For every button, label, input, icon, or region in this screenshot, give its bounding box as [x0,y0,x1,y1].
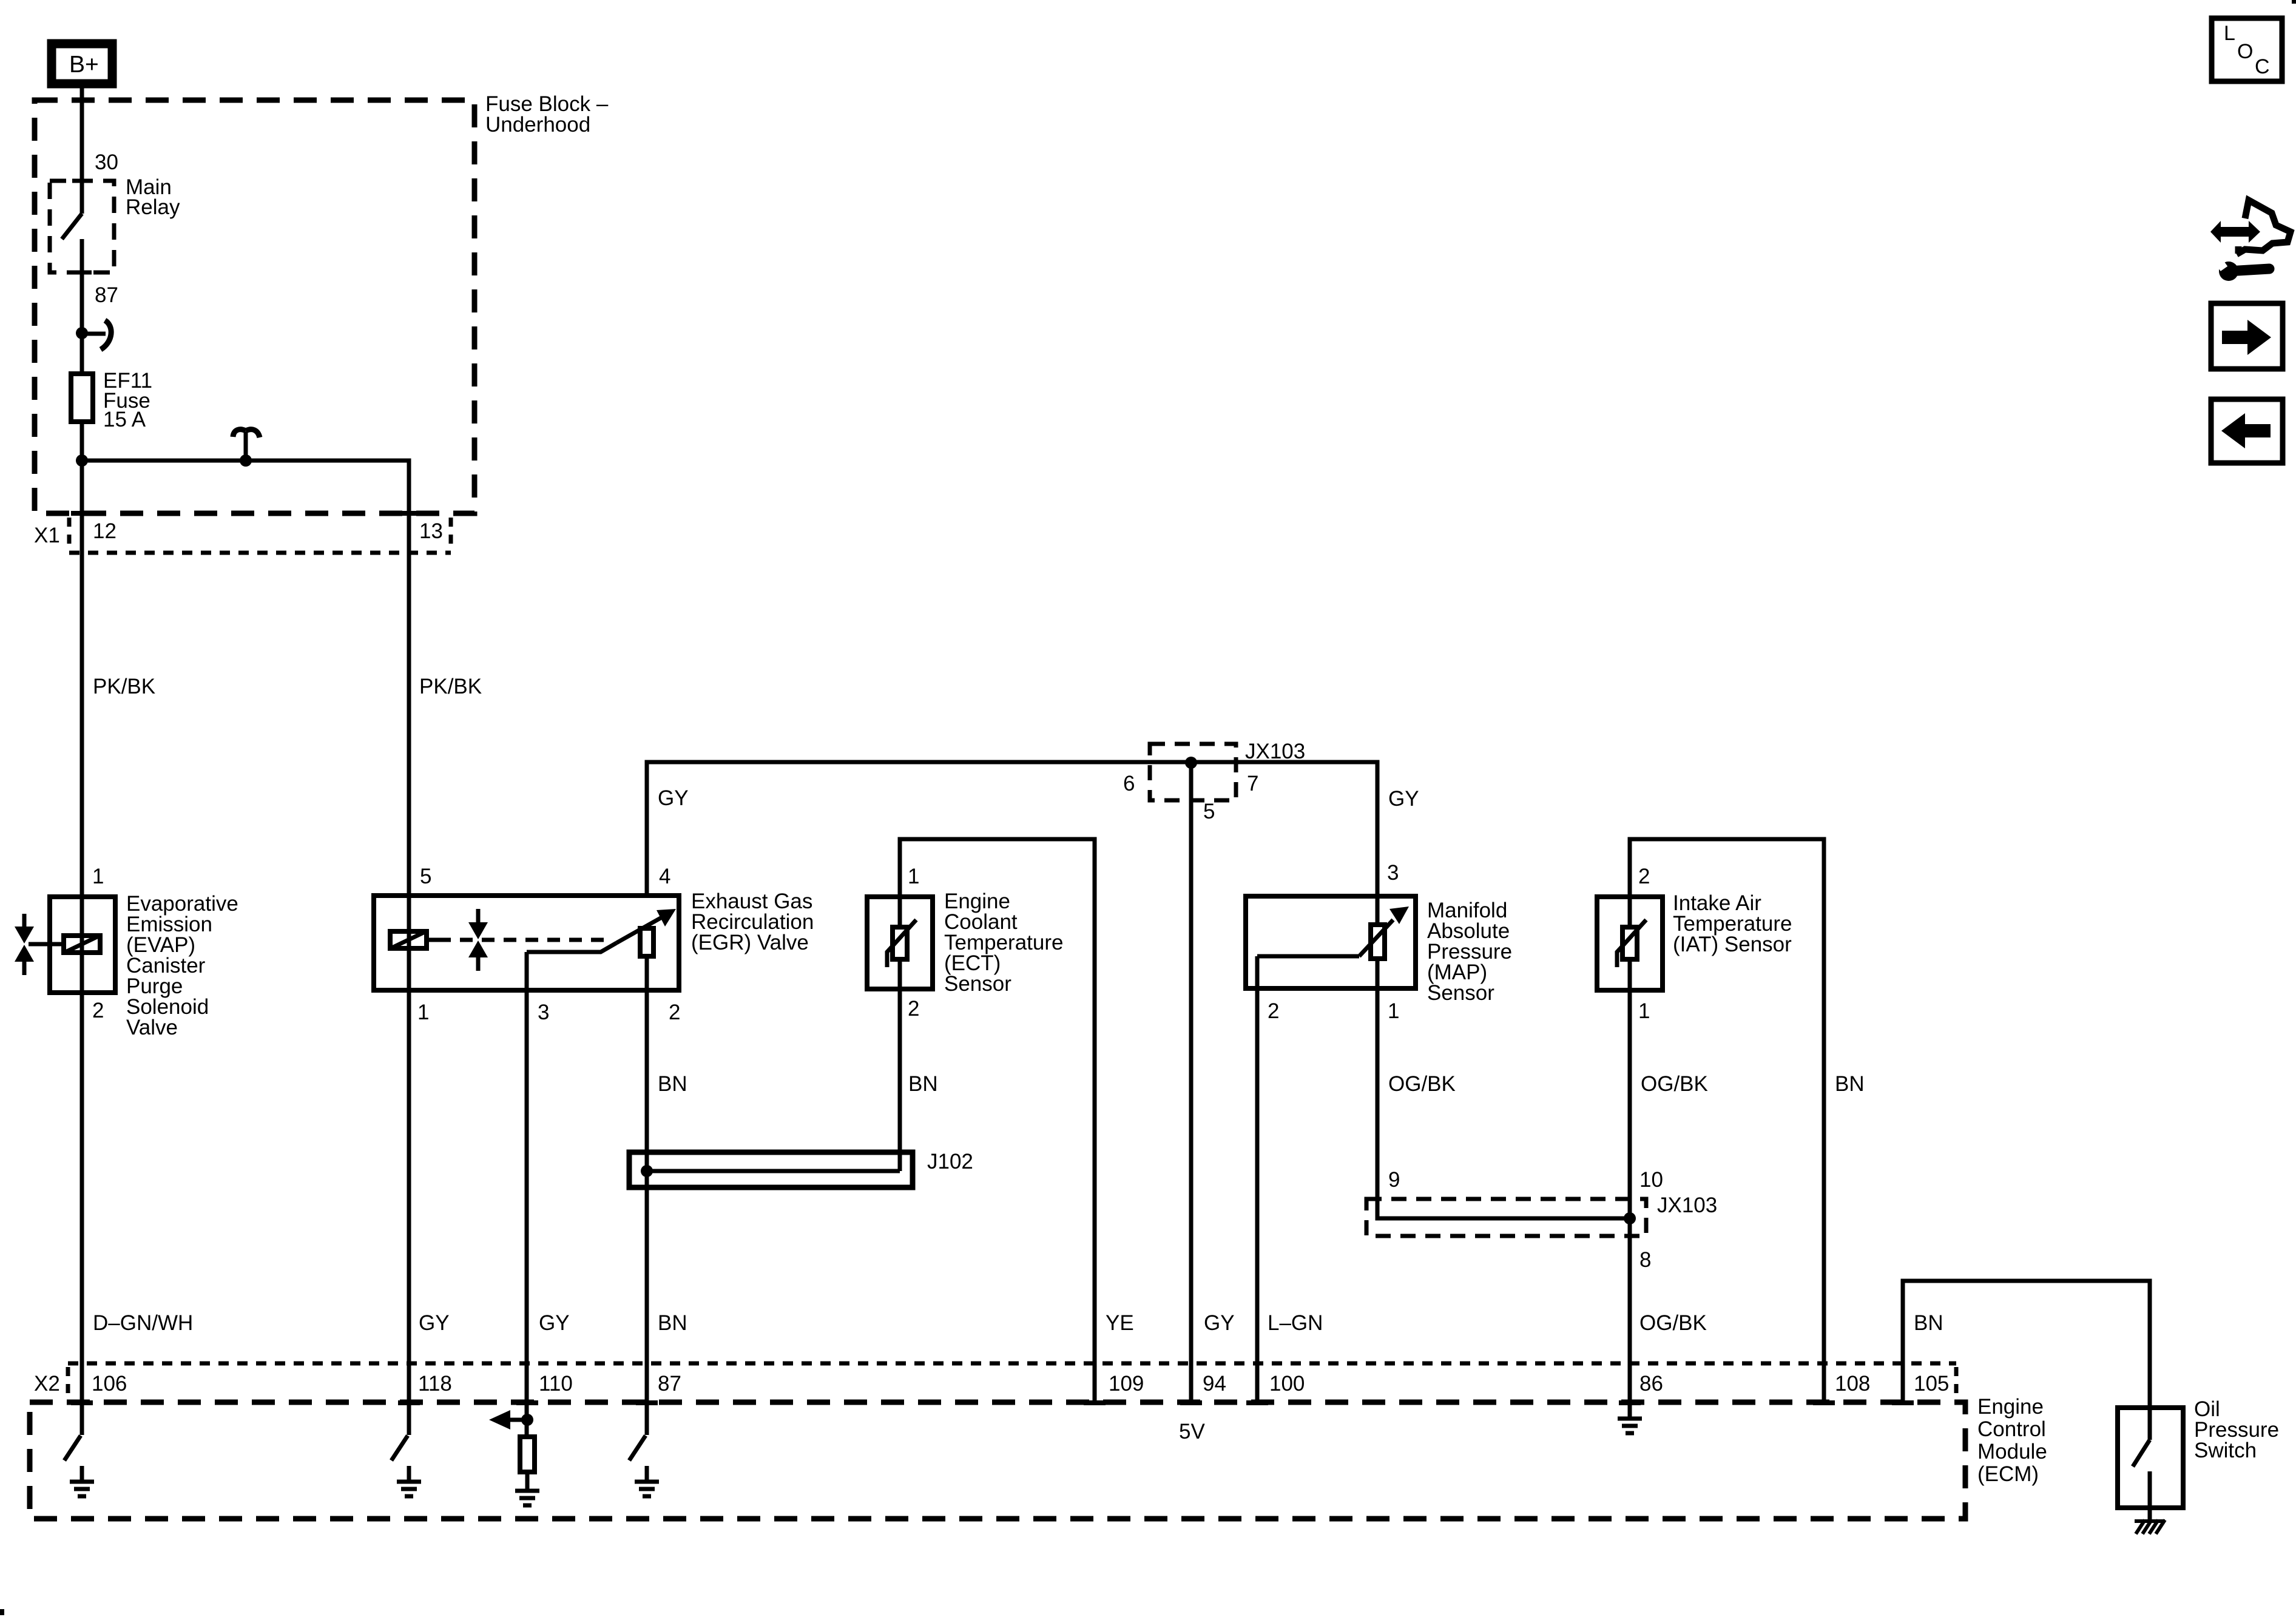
IAT thermistor body [1622,927,1637,959]
arrow to other circuit at pin 110 [510,1418,527,1422]
svg-text:5: 5 [1203,800,1215,823]
X1 connector right end cap [449,518,453,551]
Oil Pressure Switch box [2118,1408,2183,1508]
svg-text:GY: GY [658,786,689,810]
svg-text:OG/BK: OG/BK [1388,1072,1456,1096]
node: junction at pin 110 pull-up [521,1414,533,1426]
svg-text:J102: J102 [927,1150,973,1173]
pin tick X1-12 [71,511,93,516]
svg-text:Switch: Switch [2194,1439,2257,1462]
wire JX103 pin 5 to ECM pin 94 (GY 5V) [1189,763,1194,1403]
svg-text:Relay: Relay [126,195,180,219]
node: junction in J102 [641,1165,653,1177]
svg-text:86: 86 [1639,1372,1663,1396]
svg-text:12: 12 [93,519,116,543]
svg-text:110: 110 [539,1372,573,1396]
EVAP valve link line [29,942,61,947]
pin tick X2-108 [1813,1400,1835,1405]
EVAP pinch valve symbol [22,914,27,975]
svg-text:1: 1 [908,865,919,888]
page corner mark bottom left [0,1609,4,1615]
pin tick X2-109 [1084,1400,1106,1405]
EGR coil diagonal [393,933,424,947]
svg-text:9: 9 [1388,1168,1400,1192]
ground inside ECM below pin 87 [635,1466,659,1496]
tap hook curve [101,320,111,349]
B+ power symbol box [52,44,112,84]
svg-text:OG/BK: OG/BK [1641,1072,1708,1096]
svg-text:PK/BK: PK/BK [419,675,482,698]
node: junction at JX103 pin 5 [1185,757,1197,769]
ECM switch to ground at pin 106 [64,1436,81,1460]
MAP variable resistor body [1371,925,1385,959]
svg-text:X1: X1 [34,524,60,547]
svg-text:2: 2 [908,997,919,1021]
svg-text:JX103: JX103 [1657,1193,1717,1217]
svg-text:1: 1 [1388,999,1399,1023]
svg-text:15 A: 15 A [103,408,146,431]
svg-text:105: 105 [1914,1372,1949,1396]
node: tap on pin-87 wire [76,327,88,339]
ECT sensor box [867,897,933,989]
svg-text:L–GN: L–GN [1268,1311,1323,1335]
relay pin tick 87 [72,271,92,275]
wire inside EGR: pin3 branch to wiper [527,943,616,952]
svg-text:3: 3 [538,1001,549,1024]
icon: back arrow box [2211,399,2283,463]
J102 junction box [629,1152,913,1187]
wire resistor to ground [525,1474,530,1476]
svg-text:GY: GY [539,1311,570,1335]
svg-text:C: C [2255,55,2270,78]
node: tap on feeder wire [240,454,252,467]
wire IAT pin 1 through JX103 to ECM pin 86 (OG/BK) [1628,962,1632,1403]
X1 connector dotted line [69,551,451,555]
MAP sensor box [1246,896,1416,988]
EVAP solenoid valve box [50,897,115,993]
pin tick X2-86 [1619,1400,1641,1405]
wire MAP pin 1 to JX103 pin 9 (OG/BK) [1377,961,1630,1218]
svg-text:109: 109 [1109,1372,1144,1396]
svg-text:5V: 5V [1179,1420,1205,1443]
svg-text:YE: YE [1106,1311,1134,1335]
icon: wiring repair (double arrow, outline, wrench) [2210,200,2291,281]
wire MAP pin 2 to ECM pin 100 (L-GN) [1255,956,1260,1403]
svg-text:2: 2 [669,1001,680,1024]
resistor inside ECM at pin 110 [520,1437,535,1472]
svg-text:Valve: Valve [126,1016,178,1039]
svg-text:87: 87 [95,283,118,307]
svg-text:GY: GY [419,1311,450,1335]
X2 connector left end cap [66,1367,70,1400]
page corner mark top right [2292,0,2296,4]
wire ECT pin 1 loop to ECM pin 109 (YE) [900,839,1095,1403]
pin tick X2-100 [1246,1400,1268,1405]
pin tick X1-13 [398,511,420,516]
Oil Pressure Switch blade [2133,1440,2150,1467]
tap hook curve on feeder [244,431,248,459]
tap hook stub [82,332,106,336]
svg-text:1: 1 [92,865,104,888]
svg-text:Underhood: Underhood [485,113,590,137]
wire B+ to Main Relay pin 30 [80,87,84,214]
svg-text:Sensor: Sensor [944,972,1011,996]
EGR wiper arrow [616,916,664,943]
svg-text:D–GN/WH: D–GN/WH [93,1311,193,1335]
EVAP coil diagonal [67,937,97,951]
svg-text:JX103: JX103 [1245,740,1305,763]
svg-text:94: 94 [1203,1372,1226,1396]
wire ECT pin1 stub into sensor [898,894,902,925]
ground inside ECM below pin 110 [515,1475,539,1505]
X1 connector left end cap [67,518,72,551]
svg-text:108: 108 [1835,1372,1870,1396]
relay pin tick 30 [72,179,92,183]
wire ECT pin 2 to J102 (BN) [898,962,902,1171]
EGR variable resistor body [640,928,653,956]
svg-text:8: 8 [1639,1248,1651,1272]
node: junction below fuse EF11 [76,454,88,467]
svg-text:BN: BN [908,1072,938,1096]
svg-text:Engine: Engine [1977,1395,2044,1419]
svg-text:2: 2 [92,999,104,1022]
svg-text:100: 100 [1269,1372,1305,1396]
wire 5V bus: EGR pin 4 corner, horizontal run, MAP pin 3 corner (GY) [647,762,1377,922]
node: junction at JX103 pin 8 [1624,1212,1636,1224]
svg-text:10: 10 [1639,1168,1663,1192]
EGR pinch valve symbol [476,909,481,971]
pin tick X2-118 [398,1400,420,1405]
wire IAT pin2 stub into sensor [1628,894,1632,925]
svg-text:1: 1 [417,1001,429,1024]
svg-text:87: 87 [658,1372,681,1396]
wire EGR pin 5 through coil to pin 1 and ECM pin 118 (GY) [407,893,411,1435]
ECM switch to ground at pin 87 [629,1436,646,1460]
Oil Pressure Switch lower lead [2148,1471,2152,1521]
svg-text:X2: X2 [34,1372,60,1396]
svg-text:3: 3 [1387,861,1399,885]
ECM switch to ground at pin 118 [391,1436,408,1460]
ground inside ECM below pin 106 [70,1466,94,1496]
svg-text:BN: BN [658,1072,687,1096]
svg-text:Module: Module [1977,1440,2047,1463]
svg-text:Sensor: Sensor [1427,981,1494,1005]
Main Relay switch blade [62,214,82,239]
main relay dashed box [50,181,114,272]
X2 connector dotted line [68,1362,1956,1366]
ECT thermistor body [893,927,907,959]
EGR valve box [374,896,679,990]
svg-text:4: 4 [659,865,670,888]
wire inside MAP: pin2 branch to wiper [1257,954,1359,959]
IAT sensor box [1597,897,1663,990]
svg-text:OG/BK: OG/BK [1639,1311,1707,1335]
svg-text:BN: BN [658,1311,687,1335]
pin tick X2-105 [1892,1400,1914,1405]
svg-text:BN: BN [1835,1072,1865,1096]
svg-text:L: L [2224,22,2235,45]
svg-text:PK/BK: PK/BK [93,675,155,698]
svg-text:O: O [2237,40,2253,63]
ground inside ECM below pin 118 [397,1466,421,1496]
IAT thermistor strike [1617,920,1646,967]
junction block JX103 dashed box (lower) [1366,1199,1646,1236]
pin tick X2-87 [636,1400,658,1405]
svg-text:2: 2 [1638,865,1650,888]
svg-text:2: 2 [1268,999,1279,1023]
fuse EF11 body [71,374,93,422]
pin tick X2-106 [71,1400,93,1405]
EGR coil stub [429,938,438,942]
svg-text:(EGR) Valve: (EGR) Valve [691,931,809,954]
wire Oil Pressure Switch to ECM pin 105 (BN) [1903,1281,2150,1440]
EGR mechanical dashed link [438,938,604,942]
wire feeder from fuse to X1 pin 13 (horizontal) [82,461,409,893]
pin tick X2-94 [1180,1400,1202,1405]
ECT thermistor strike [887,920,916,967]
fuse block underhood dashed box [35,100,474,513]
svg-text:(IAT) Sensor: (IAT) Sensor [1673,933,1792,956]
EVAP coil [64,936,100,953]
svg-text:6: 6 [1123,772,1135,795]
MAP wiper arrow [1359,920,1393,956]
svg-text:(ECM): (ECM) [1977,1462,2039,1486]
svg-text:1: 1 [1638,999,1650,1023]
svg-text:13: 13 [419,519,443,543]
svg-text:B+: B+ [69,52,99,78]
svg-text:GY: GY [1388,787,1419,811]
svg-text:118: 118 [418,1372,452,1396]
svg-text:106: 106 [92,1372,127,1396]
wire EGR pin 3 to ECM pin 110 (GY) [525,952,529,1434]
wire IAT pin 2 loop to ECM pin 108 (BN) [1630,839,1824,1403]
wire EGR pin 2 below resistor to J102 and ECM pin 87 (BN) [645,959,649,1435]
pin tick X2-110 [516,1400,538,1405]
svg-text:30: 30 [95,150,118,174]
ground inside ECM at pin 86 [1618,1403,1642,1433]
svg-text:GY: GY [1204,1311,1235,1335]
svg-text:7: 7 [1247,772,1258,795]
junction block JX103 dashed box (top) [1150,744,1236,800]
wire J102 internal link [647,1169,900,1173]
EGR coil [390,931,427,948]
X2 connector right end cap [1954,1367,1959,1400]
engine control module ECM dashed box [30,1402,1965,1519]
svg-text:5: 5 [420,865,431,888]
chassis ground below Oil Pressure Switch [2135,1520,2165,1534]
svg-text:Control: Control [1977,1417,2046,1441]
svg-text:BN: BN [1914,1311,1943,1335]
icon: forward arrow box [2211,303,2283,369]
LOC locator box [2212,18,2282,81]
wire Main Relay pin 87 down through EF11 fuse, X1 pin 12, EVAP valve to ECM pin 106 [80,239,84,1435]
